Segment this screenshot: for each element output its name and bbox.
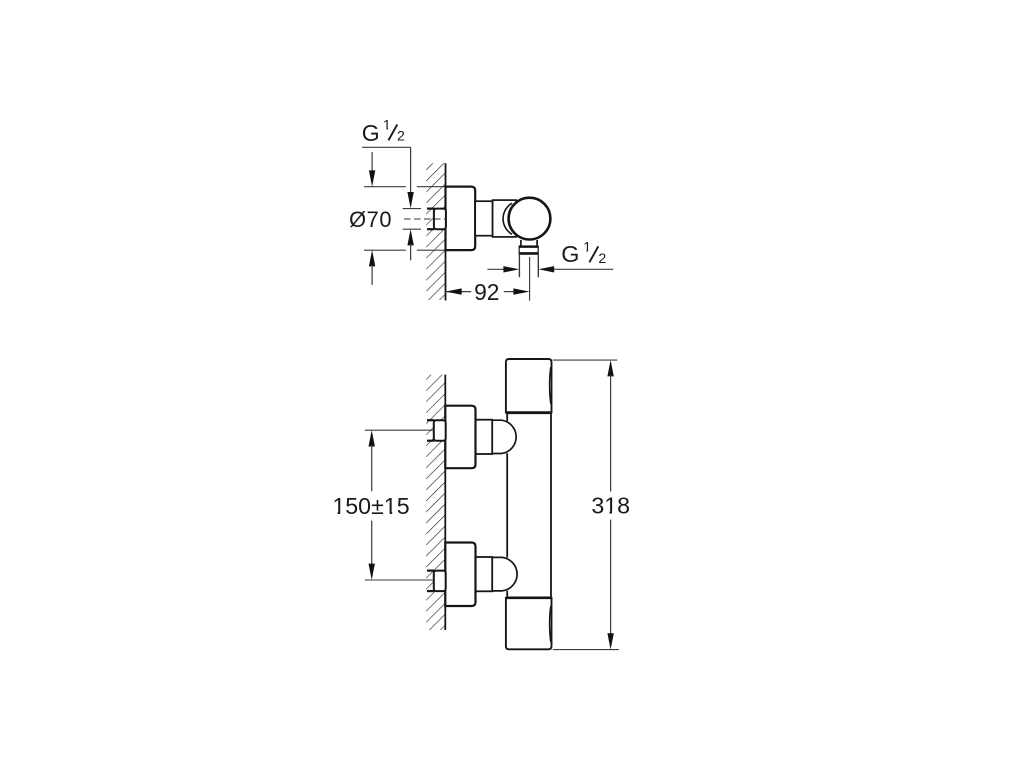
outlet neck left line [520,240,522,246]
mixer body section 2 (top view) [493,200,517,237]
svg-text:2: 2 [598,251,606,267]
outlet neck right line [536,240,538,246]
318 dimension bottom arrow (down) [610,520,612,635]
svg-text:G: G [561,241,579,267]
top cap separator thick line [506,411,552,414]
Ø70 dimension lower arrow (up) [369,250,375,266]
Ø70 dimension upper arrow (down) [371,152,373,172]
bottom cap shading arc [550,606,551,642]
upper S-union dome [492,420,516,453]
outlet ring nut [519,246,538,254]
G1/2 thread extension bottom [403,228,421,230]
150±15 dimension lower arrow (down) [371,521,373,566]
G1/2 dimension upper arrow (down) [410,147,412,193]
318 extension line top [553,359,617,361]
body bottom cap [506,598,552,649]
dimension 92 right arrowhead [513,288,529,294]
svg-text:G: G [362,120,380,146]
svg-text:2: 2 [397,129,405,145]
svg-text:1: 1 [583,239,591,255]
nipple centerline (dashed) [404,218,446,220]
bottom cap separator thick line [506,596,552,599]
outlet ring nut top edge [519,246,539,248]
wall hatching (bottom view) [426,375,444,630]
outlet G1/2 right arrow (left pointing) [538,266,554,272]
body top cap [506,359,552,412]
wall hole lower edge (top view) [427,228,435,230]
lower S-union dome [492,557,517,591]
150±15 dimension upper arrow (up) [369,430,375,446]
dimension 92 line left segment [446,291,472,293]
label G 1/2 (outlet) [561,239,606,267]
318 dimension top arrow (up) [607,360,613,376]
body shaft right edge [550,413,552,598]
G1/2 thread extension top [403,208,421,210]
wall nipple G1/2 (top view) [434,209,446,230]
handle outer circle (top view) [509,198,551,240]
150±15 extension line lower [365,579,434,581]
extension line Ø70 top [364,186,445,188]
body shaft left edge segments [506,413,508,598]
mixer body section 1 (top view) [475,201,492,236]
outlet pipe left line [518,254,520,277]
wall face line (bottom view) [444,375,446,630]
318 extension line bottom [553,649,619,651]
mixer body shaft [507,413,551,598]
outlet pipe right line [537,254,539,277]
fraction slash (outlet label) [589,246,598,262]
upper escutcheon (front view) [445,406,475,469]
G1/2 dimension lower arrow (up) [407,229,413,245]
svg-text:318: 318 [591,493,630,519]
upper union nut [476,420,493,454]
wall hole upper edge (top view) [427,208,435,210]
dimension 92 left arrowhead [446,288,462,294]
upper wall hole edges [427,420,434,441]
dimension 92 line right segment [504,291,514,293]
svg-text:Ø70: Ø70 [349,207,392,232]
outlet centerline [529,257,531,301]
label G 1/2 (top) [362,117,405,146]
svg-text:150±15: 150±15 [332,493,409,519]
lower escutcheon (front view) [445,543,475,607]
outlet G1/2 left arrow (right pointing) [487,268,505,270]
upper wall nipple [434,420,446,441]
wall face line (top view) [445,163,447,300]
outlet ring nut bottom edge [519,252,539,254]
extension line Ø70 bottom [364,249,445,251]
handle rear cap arc [503,203,512,234]
svg-text:92: 92 [474,279,499,305]
svg-text:1: 1 [383,117,391,133]
lower wall nipple [434,571,446,592]
wall hatching (top view) [426,163,445,300]
fraction slash (top label) [388,125,397,141]
150±15 extension line upper [365,429,434,431]
leader line under G 1/2 (top) [362,146,411,148]
escutcheon flange (top view) [446,187,476,251]
lower wall hole edges [427,571,434,592]
lower union nut [476,557,493,591]
top cap shading arc [550,367,551,404]
